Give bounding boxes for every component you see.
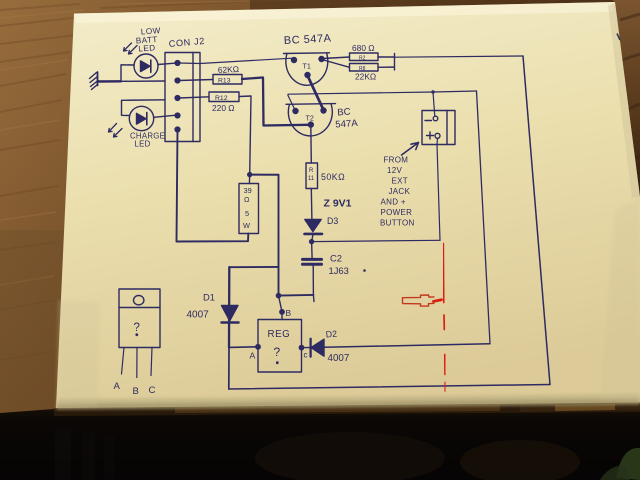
svg-text:Ω: Ω (244, 195, 250, 204)
svg-text:A: A (114, 381, 121, 392)
svg-text:c: c (304, 351, 308, 360)
red dashed line (443, 244, 445, 392)
svg-text:R12: R12 (215, 95, 228, 102)
wire T2 left pin to mid rail (288, 91, 477, 111)
arrow pointing to battery (402, 143, 419, 156)
node bus/C2/B junction (276, 293, 282, 299)
svg-text:C2: C2 (330, 253, 342, 264)
svg-text:D1: D1 (203, 292, 215, 303)
svg-text:?: ? (274, 345, 281, 359)
svg-text:LED: LED (135, 140, 151, 149)
svg-text:POWER: POWER (381, 208, 413, 217)
svg-text:C: C (149, 385, 156, 396)
resistor R2 680 (323, 57, 350, 59)
lighter table-edge strip under paper (54, 403, 640, 417)
wire node to vertical bus (250, 174, 279, 176)
resistor R13 (213, 75, 242, 85)
green leaf bottom right (616, 448, 640, 480)
node pin A (255, 344, 261, 350)
svg-text:AND +: AND + (381, 198, 406, 207)
svg-text:R2: R2 (359, 55, 366, 61)
svg-text:220 Ω: 220 Ω (212, 103, 235, 113)
wire T1 base to T2 diagonal (308, 76, 324, 111)
svg-text:T2: T2 (306, 114, 314, 123)
wire mid-rect right side (477, 91, 491, 344)
text CHARGE LED (130, 132, 165, 149)
paper sheet (56, 2, 640, 408)
wire vertical bus to C2 node (278, 175, 280, 296)
svg-text:EXT: EXT (392, 177, 408, 186)
zener D3 (305, 220, 321, 232)
wire LED1 right lead (158, 63, 175, 64)
wire node to battery plus lead (312, 240, 440, 241)
wire D1 branch top (229, 266, 278, 268)
dark bottom region (0, 404, 640, 480)
svg-text:D2: D2 (325, 329, 337, 340)
wire pin1 to T1 (179, 58, 292, 63)
node pin B (279, 309, 285, 315)
svg-text:39: 39 (244, 186, 252, 195)
wire bottom to 39ohm (177, 234, 249, 242)
svg-text:R: R (309, 168, 314, 174)
svg-text:Z 9V1: Z 9V1 (324, 198, 352, 210)
svg-text:22KΩ: 22KΩ (355, 72, 376, 82)
svg-text:4007: 4007 (328, 353, 350, 364)
resistor R11 (306, 163, 318, 189)
LED D-low (LOW BATT LED) (134, 54, 158, 78)
svg-text:B: B (133, 386, 139, 397)
svg-text:12V: 12V (387, 166, 402, 175)
svg-text:?: ? (134, 322, 140, 334)
diode D1 (222, 306, 239, 321)
wire battery plus lead down (437, 138, 440, 240)
wire pin3 to R12 (179, 97, 209, 98)
node C2/D3 junction (309, 239, 314, 244)
wire pin5 down (177, 130, 178, 242)
wire resistor join bar (378, 54, 395, 71)
TO-220 package (119, 289, 160, 348)
text D1 4007 (187, 292, 215, 321)
resistor R12 (209, 92, 239, 102)
wire D2 to mid-rect corner (324, 344, 490, 348)
svg-text:REG: REG (268, 329, 291, 340)
wire LED2 left lead via loop (122, 100, 166, 116)
LED D-charge (CHARGE LED) (129, 106, 153, 130)
regulator REG box (258, 320, 302, 373)
paper inner shading (56, 394, 640, 409)
wire outer right side (523, 56, 550, 385)
svg-text:BUTTON: BUTTON (380, 219, 415, 228)
text FROM 12V EXT JACK AND + POWER BUTTON (380, 156, 415, 228)
svg-text:11: 11 (308, 176, 315, 182)
transistor T2 (286, 104, 336, 136)
svg-text:5: 5 (245, 209, 249, 218)
LED1 light arrows (124, 43, 138, 54)
node junction dot (247, 172, 252, 177)
wire R12 down to node (239, 96, 251, 175)
red arrow (403, 295, 442, 306)
text D2 4007 (325, 329, 349, 364)
wire R11 to D3 (310, 189, 313, 220)
dim shapes in darkness (55, 428, 71, 480)
paper vignette (600, 197, 640, 403)
wire node to 39ohm top (248, 175, 250, 184)
pen tick on right paper edge (617, 34, 620, 41)
connector CON J2 (165, 53, 200, 142)
wire pin A to left (229, 346, 258, 349)
wire LED2 right lead (154, 115, 175, 117)
svg-text:D3: D3 (327, 216, 338, 226)
resistor R39 39ohm 5W (239, 184, 259, 234)
wire top rail to outer corner (395, 56, 524, 57)
node battery minus junction (431, 90, 434, 93)
wire D1 vertical (228, 267, 231, 347)
svg-text:1J63: 1J63 (329, 265, 349, 276)
text C2 1J63 (329, 253, 366, 277)
capacitor C2 (311, 242, 314, 258)
text A B C legs (114, 381, 156, 397)
svg-text:R13: R13 (218, 78, 231, 85)
wire battery minus lead (433, 92, 435, 116)
diode D2 (302, 347, 311, 349)
svg-text:A: A (250, 351, 256, 361)
svg-text:50KΩ: 50KΩ (321, 172, 345, 182)
svg-text:FROM: FROM (384, 156, 409, 165)
svg-text:JACK: JACK (389, 187, 411, 196)
wire R13 to T2 base (242, 78, 308, 126)
wire C2 bottom to bus node (279, 294, 314, 297)
battery / ext jack (422, 111, 455, 145)
wire T2 base to R11 (310, 125, 313, 163)
ground (90, 72, 99, 90)
wire ground to connector (98, 80, 122, 83)
LED2 light arrows (109, 124, 123, 138)
transistor T1 (284, 53, 330, 86)
svg-text:T1: T1 (303, 62, 311, 71)
darker wood right of paper (612, 0, 640, 200)
wire node down to REG pin B (279, 296, 283, 320)
wire LED1 left lead (121, 65, 134, 82)
wire D3 to node (312, 235, 313, 242)
svg-text:547A: 547A (335, 118, 359, 131)
wire pin2 to R13 (179, 80, 213, 81)
svg-text:BC 547A: BC 547A (284, 33, 332, 47)
wire outer bottom (229, 385, 550, 390)
svg-text:B: B (286, 308, 292, 318)
text LOW BATT LED (136, 26, 161, 53)
resistor R8 22K (324, 60, 350, 67)
node pin C (299, 345, 305, 351)
svg-text:62KΩ: 62KΩ (218, 64, 240, 75)
svg-text:680 Ω: 680 Ω (352, 43, 375, 53)
wire outer left vertical to A-row (228, 347, 230, 389)
package legs (122, 348, 125, 375)
svg-text:W: W (243, 221, 250, 230)
svg-text:BC: BC (337, 107, 351, 119)
text BC 547A beside T2 (335, 107, 359, 131)
svg-text:4007: 4007 (187, 310, 210, 321)
svg-text:LED: LED (138, 43, 156, 53)
